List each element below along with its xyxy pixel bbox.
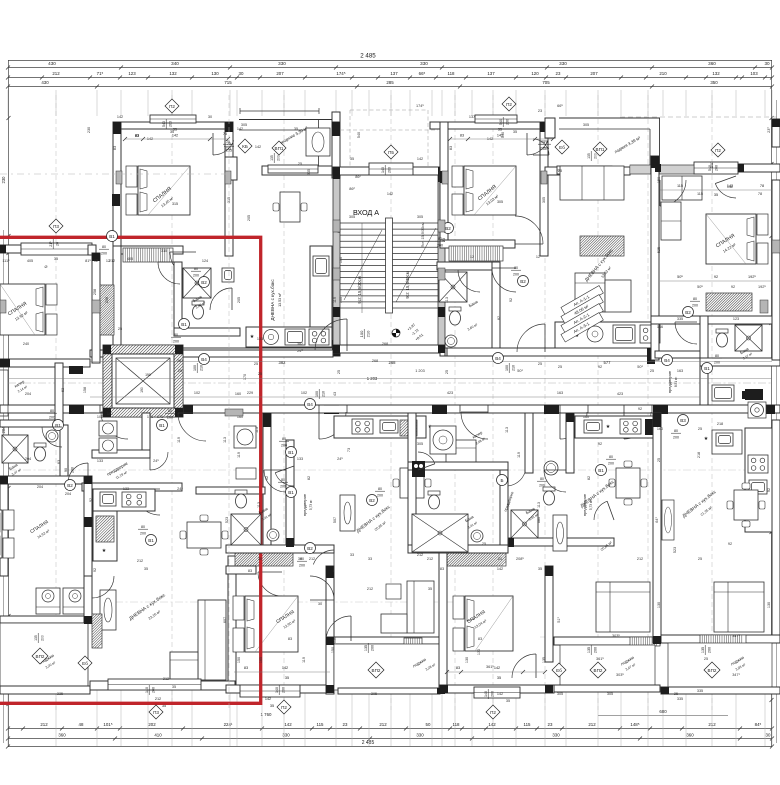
entrance canopy dashed xyxy=(340,110,438,167)
svg-text:82: 82 xyxy=(497,316,501,320)
svg-text:80: 80 xyxy=(540,477,544,481)
svg-text:В1: В1 xyxy=(181,322,187,327)
left edge axis dash xyxy=(0,174,230,206)
A1 right/bottom walls xyxy=(113,122,340,356)
svg-text:В2: В2 xyxy=(520,279,526,284)
svg-text:218: 218 xyxy=(717,422,723,426)
svg-text:Яст. 15,9/30см: Яст. 15,9/30см xyxy=(421,222,425,248)
svg-text:80: 80 xyxy=(168,409,172,413)
svg-text:119: 119 xyxy=(302,657,306,663)
svg-text:200: 200 xyxy=(673,435,679,439)
marker VP2 b393 xyxy=(704,662,720,678)
corridor door openings xyxy=(100,406,652,440)
svg-text:540: 540 xyxy=(162,121,166,127)
svg-text:200: 200 xyxy=(437,243,443,247)
svg-text:В2: В2 xyxy=(369,498,375,503)
svg-text:13.53 м²: 13.53 м² xyxy=(278,292,282,306)
svg-text:83: 83 xyxy=(135,134,139,138)
svg-text:210: 210 xyxy=(511,365,515,371)
svg-text:135: 135 xyxy=(542,657,546,663)
more scattered dims xyxy=(25,104,771,703)
svg-text:25: 25 xyxy=(337,370,341,374)
svg-text:142: 142 xyxy=(284,722,292,727)
bed bedroom12.90 xyxy=(233,596,244,620)
balcony 3.28 xyxy=(326,616,443,694)
svg-text:200: 200 xyxy=(101,251,107,255)
svg-text:335: 335 xyxy=(677,697,683,701)
A2 bottom wall, doors xyxy=(440,268,655,364)
svg-text:200: 200 xyxy=(70,467,74,473)
svg-text:200: 200 xyxy=(593,647,597,653)
svg-text:200: 200 xyxy=(593,153,597,159)
svg-text:73: 73 xyxy=(347,448,351,452)
svg-text:171: 171 xyxy=(147,415,153,419)
left bedroom right wall + wardrobe xyxy=(92,253,114,363)
bath A1 fixtures xyxy=(174,262,240,336)
svg-text:133: 133 xyxy=(123,487,129,491)
loggia A1 rail and inner wall xyxy=(225,108,340,180)
svg-text:200: 200 xyxy=(377,493,383,497)
svg-text:305: 305 xyxy=(417,442,423,446)
svg-text:В1: В1 xyxy=(148,538,154,543)
svg-text:192⁵: 192⁵ xyxy=(748,275,756,279)
svg-text:80: 80 xyxy=(609,455,613,459)
svg-text:305: 305 xyxy=(307,169,311,175)
svg-text:330: 330 xyxy=(278,61,286,66)
svg-text:118: 118 xyxy=(448,71,456,76)
bath door arcs xyxy=(275,466,614,572)
svg-text:Б: Б xyxy=(500,478,503,483)
svg-text:115: 115 xyxy=(677,184,683,188)
svg-text:102: 102 xyxy=(301,391,307,395)
door marker В2 at 523,281 xyxy=(518,276,529,287)
svg-text:130: 130 xyxy=(211,71,219,76)
svg-text:В1: В1 xyxy=(159,423,165,428)
door marker В2 at 688,312 xyxy=(683,307,694,318)
svg-text:165: 165 xyxy=(259,657,263,663)
svg-text:200: 200 xyxy=(513,272,519,276)
svg-text:146: 146 xyxy=(657,325,663,329)
svg-text:258: 258 xyxy=(105,297,109,303)
svg-text:115: 115 xyxy=(697,192,703,196)
svg-text:23: 23 xyxy=(548,722,553,727)
svg-text:200: 200 xyxy=(707,647,711,653)
kitchen red apartment xyxy=(93,489,155,561)
svg-text:240: 240 xyxy=(23,342,29,346)
svg-text:135: 135 xyxy=(364,645,368,651)
marker VP2 b347 xyxy=(590,662,606,678)
svg-text:230: 230 xyxy=(87,127,91,133)
svg-text:92: 92 xyxy=(767,488,771,492)
svg-text:80: 80 xyxy=(281,478,285,482)
svg-text:5,73 м²: 5,73 м² xyxy=(309,500,313,510)
svg-text:212: 212 xyxy=(588,722,596,727)
svg-text:285: 285 xyxy=(386,80,394,85)
svg-text:100: 100 xyxy=(359,330,364,337)
svg-text:80: 80 xyxy=(50,409,54,413)
svg-text:25: 25 xyxy=(650,369,654,373)
svg-text:83: 83 xyxy=(244,666,248,670)
svg-text:В1: В1 xyxy=(598,468,604,473)
svg-text:133: 133 xyxy=(297,457,303,461)
svg-text:ВП2: ВП2 xyxy=(372,668,381,673)
marker VP2 mid xyxy=(368,662,384,678)
svg-text:П2: П2 xyxy=(490,710,496,715)
svg-text:360: 360 xyxy=(58,733,66,738)
svg-text:30: 30 xyxy=(208,115,212,119)
marker P3 text xyxy=(49,239,59,249)
svg-text:25: 25 xyxy=(258,372,262,376)
svg-text:24⁵: 24⁵ xyxy=(177,487,183,491)
svg-text:142: 142 xyxy=(237,127,243,131)
svg-text:50¹: 50¹ xyxy=(517,369,523,373)
svg-text:305: 305 xyxy=(497,200,503,204)
svg-text:50⁵: 50⁵ xyxy=(697,285,703,289)
door marker В2 at 448,228 xyxy=(443,223,454,234)
svg-text:142: 142 xyxy=(282,666,288,670)
corridor lower wall xyxy=(0,366,780,414)
svg-text:140: 140 xyxy=(275,687,279,693)
svg-text:540: 540 xyxy=(357,132,361,138)
svg-text:124: 124 xyxy=(202,259,208,263)
svg-text:90: 90 xyxy=(64,468,68,472)
svg-text:218: 218 xyxy=(697,452,701,458)
svg-text:П2: П2 xyxy=(169,104,175,109)
svg-text:174⁵: 174⁵ xyxy=(416,104,424,108)
svg-text:207: 207 xyxy=(590,71,598,76)
svg-text:В1: В1 xyxy=(109,234,115,239)
living A2 furniture xyxy=(560,166,631,312)
living A1 furniture xyxy=(273,128,330,222)
svg-text:24⁵: 24⁵ xyxy=(153,459,159,463)
svg-text:361⁵: 361⁵ xyxy=(596,657,604,661)
svg-text:212: 212 xyxy=(379,722,387,727)
svg-text:115: 115 xyxy=(317,722,325,727)
svg-text:ВП2: ВП2 xyxy=(36,654,45,659)
svg-text:71⁵: 71⁵ xyxy=(97,71,104,76)
svg-text:25: 25 xyxy=(445,370,449,374)
svg-text:ВП1: ВП1 xyxy=(275,146,284,151)
svg-text:12: 12 xyxy=(106,259,110,263)
svg-text:405: 405 xyxy=(127,257,133,261)
svg-text:100: 100 xyxy=(193,365,197,371)
svg-text:92: 92 xyxy=(509,298,513,302)
apartment A3 top wall xyxy=(620,117,780,360)
svg-text:148⁵: 148⁵ xyxy=(630,722,639,727)
unit B3 kitchen xyxy=(704,428,772,532)
svg-text:35: 35 xyxy=(714,193,718,197)
svg-text:80: 80 xyxy=(141,525,145,529)
svg-text:В4: В4 xyxy=(201,357,207,362)
svg-text:200: 200 xyxy=(539,483,545,487)
svg-text:86²: 86² xyxy=(349,187,355,191)
svg-text:23: 23 xyxy=(343,722,348,727)
loggia A1 markers xyxy=(272,141,286,155)
svg-text:208⁵: 208⁵ xyxy=(516,557,524,561)
bed 13.04 xyxy=(453,596,464,619)
svg-text:23: 23 xyxy=(556,71,561,76)
svg-text:680: 680 xyxy=(537,517,541,523)
bedroom12.90 walls xyxy=(226,566,334,697)
svg-text:137: 137 xyxy=(469,115,475,119)
unit B3 furniture xyxy=(714,483,765,632)
svg-text:212: 212 xyxy=(52,71,60,76)
svg-text:347¹: 347¹ xyxy=(732,673,740,677)
svg-text:92: 92 xyxy=(598,365,602,369)
svg-text:212: 212 xyxy=(137,559,143,563)
svg-text:160: 160 xyxy=(657,427,663,431)
svg-text:163: 163 xyxy=(677,369,683,373)
svg-text:33: 33 xyxy=(442,238,446,242)
marker P2 topright xyxy=(711,143,725,157)
door marker В1 at 151,540 xyxy=(146,535,157,546)
third batch dims xyxy=(45,109,771,696)
svg-text:200: 200 xyxy=(168,121,172,127)
svg-text:80: 80 xyxy=(282,437,286,441)
elevator shaft xyxy=(103,345,183,417)
svg-text:21: 21 xyxy=(498,557,502,561)
svg-text:210: 210 xyxy=(659,71,667,76)
misc door arcs xyxy=(42,180,686,600)
svg-text:92: 92 xyxy=(731,285,735,289)
svg-text:Еб: Еб xyxy=(556,668,562,673)
svg-text:Еб: Еб xyxy=(82,661,88,666)
svg-text:330: 330 xyxy=(552,733,560,738)
svg-text:92: 92 xyxy=(265,476,269,480)
svg-text:150: 150 xyxy=(333,637,337,643)
svg-text:★: ★ xyxy=(250,334,255,340)
svg-text:50¹: 50¹ xyxy=(637,365,643,369)
svg-text:2 485: 2 485 xyxy=(362,740,375,746)
svg-text:305: 305 xyxy=(542,197,546,203)
svg-text:83: 83 xyxy=(478,637,482,641)
svg-text:66⁵: 66⁵ xyxy=(557,104,563,108)
svg-text:212: 212 xyxy=(163,677,169,681)
svg-text:705: 705 xyxy=(542,80,550,85)
svg-text:200: 200 xyxy=(387,167,391,173)
svg-text:200: 200 xyxy=(193,273,199,277)
marker P2 bottom1 xyxy=(277,700,291,714)
unit B2 bath xyxy=(506,413,614,546)
svg-text:235: 235 xyxy=(225,146,231,150)
svg-text:305: 305 xyxy=(557,692,563,696)
svg-text:423: 423 xyxy=(617,392,623,396)
svg-text:92: 92 xyxy=(93,568,97,572)
svg-text:142: 142 xyxy=(255,145,261,149)
svg-text:9ст. 15,9/30см: 9ст. 15,9/30см xyxy=(357,276,362,303)
svg-text:540: 540 xyxy=(499,119,503,125)
marker EB mid xyxy=(552,663,566,677)
svg-text:132: 132 xyxy=(712,71,720,76)
svg-text:523: 523 xyxy=(225,517,229,523)
svg-text:82: 82 xyxy=(307,476,311,480)
svg-text:305: 305 xyxy=(241,123,247,127)
svg-text:150: 150 xyxy=(237,657,241,663)
svg-text:119: 119 xyxy=(333,297,337,303)
svg-text:210: 210 xyxy=(365,330,370,337)
svg-text:200: 200 xyxy=(281,687,285,693)
bedroom12.90 top xyxy=(226,552,293,596)
svg-text:92: 92 xyxy=(89,498,93,502)
svg-text:83: 83 xyxy=(440,567,444,571)
svg-text:101⁵: 101⁵ xyxy=(103,722,112,727)
svg-text:212: 212 xyxy=(708,722,716,727)
svg-text:★: ★ xyxy=(102,548,107,554)
svg-text:83: 83 xyxy=(248,569,252,573)
svg-text:50⁵: 50⁵ xyxy=(677,275,683,279)
svg-text:142: 142 xyxy=(417,157,423,161)
svg-text:200: 200 xyxy=(173,339,179,343)
svg-text:В4: В4 xyxy=(307,402,313,407)
svg-text:92: 92 xyxy=(598,442,602,446)
svg-text:212: 212 xyxy=(155,697,161,701)
svg-text:135: 135 xyxy=(701,647,705,653)
svg-text:132: 132 xyxy=(169,71,177,76)
hall second door marker xyxy=(178,95,297,710)
svg-text:258: 258 xyxy=(93,289,97,295)
svg-text:174⁵: 174⁵ xyxy=(336,71,345,76)
svg-text:212: 212 xyxy=(40,722,48,727)
svg-text:25: 25 xyxy=(298,162,302,166)
svg-text:12: 12 xyxy=(94,259,98,263)
svg-text:113: 113 xyxy=(223,437,227,443)
svg-text:507: 507 xyxy=(333,517,337,523)
svg-text:63: 63 xyxy=(57,460,61,464)
svg-text:303⁵: 303⁵ xyxy=(612,634,620,638)
corridor upper wall xyxy=(0,348,700,367)
top dimension strip xyxy=(6,53,774,89)
svg-text:25: 25 xyxy=(254,362,258,366)
svg-text:200: 200 xyxy=(276,155,280,161)
apartment A1 exterior walls xyxy=(113,115,233,258)
svg-text:135: 135 xyxy=(270,155,274,161)
svg-text:360: 360 xyxy=(708,61,716,66)
svg-text:102: 102 xyxy=(107,412,113,416)
svg-text:540: 540 xyxy=(501,132,505,138)
door marker В1 at 601,470 xyxy=(596,465,607,476)
svg-text:78: 78 xyxy=(760,184,764,188)
svg-text:212: 212 xyxy=(367,587,373,591)
svg-text:102: 102 xyxy=(97,415,103,419)
bedroom dim rows xyxy=(123,128,772,282)
svg-text:130: 130 xyxy=(477,649,481,655)
svg-text:210: 210 xyxy=(199,365,203,371)
svg-text:158: 158 xyxy=(83,387,87,393)
extra black junction chunks xyxy=(0,119,780,694)
svg-text:118: 118 xyxy=(453,722,461,727)
svg-text:В1: В1 xyxy=(288,490,294,495)
svg-text:430: 430 xyxy=(48,61,56,66)
svg-text:330: 330 xyxy=(416,733,424,738)
svg-text:1 203: 1 203 xyxy=(415,369,425,373)
svg-text:103: 103 xyxy=(750,71,758,76)
svg-text:80: 80 xyxy=(715,354,719,358)
svg-text:268: 268 xyxy=(372,359,378,363)
svg-text:115: 115 xyxy=(524,722,532,727)
balcony 3.47 xyxy=(554,637,660,692)
bottom bedroom dim rows xyxy=(234,666,547,680)
svg-text:113: 113 xyxy=(505,427,509,433)
svg-text:212: 212 xyxy=(427,557,433,561)
svg-text:80: 80 xyxy=(378,487,382,491)
svg-text:142: 142 xyxy=(387,192,393,196)
svg-text:142: 142 xyxy=(727,184,733,188)
svg-text:★: ★ xyxy=(704,436,709,442)
svg-text:35: 35 xyxy=(538,567,542,571)
svg-text:83: 83 xyxy=(460,134,464,138)
grey pilaster columns xyxy=(0,171,780,416)
svg-text:137: 137 xyxy=(390,71,398,76)
left bedroom top wall xyxy=(0,243,96,255)
svg-text:В2: В2 xyxy=(307,546,313,551)
svg-text:142: 142 xyxy=(117,115,123,119)
svg-text:35: 35 xyxy=(498,128,502,132)
scattered small dimensions xyxy=(2,130,766,701)
corridor internal dim lines xyxy=(8,353,772,410)
left walls red apt xyxy=(0,476,92,576)
svg-text:200: 200 xyxy=(167,415,173,419)
svg-text:81⁵: 81⁵ xyxy=(85,259,91,263)
svg-text:382: 382 xyxy=(279,360,287,365)
storeroom walls xyxy=(0,363,63,427)
svg-text:КБ: КБ xyxy=(242,144,248,149)
svg-text:12: 12 xyxy=(536,255,540,259)
svg-text:200: 200 xyxy=(151,687,155,693)
svg-text:200: 200 xyxy=(370,645,374,651)
door marker В2 at 372,500 xyxy=(367,495,378,506)
kitchen A1 xyxy=(246,246,332,347)
bedroom 13.04 bottom xyxy=(440,685,554,698)
svg-text:268: 268 xyxy=(382,342,388,346)
loggia A2 xyxy=(545,118,660,175)
svg-text:30: 30 xyxy=(239,71,244,76)
unit B1 kitchen xyxy=(334,416,433,438)
svg-text:540: 540 xyxy=(710,162,714,168)
svg-text:305: 305 xyxy=(607,692,613,696)
svg-text:200: 200 xyxy=(280,484,286,488)
svg-text:410: 410 xyxy=(154,733,162,738)
unit B2 living furniture xyxy=(553,461,650,632)
svg-text:преддверие: преддверие xyxy=(667,370,672,393)
sofa red apt xyxy=(170,600,226,680)
marker P2 topleft xyxy=(165,99,179,113)
svg-text:25: 25 xyxy=(558,169,562,173)
svg-text:35: 35 xyxy=(294,127,298,131)
svg-text:330: 330 xyxy=(559,61,567,66)
svg-text:В1: В1 xyxy=(288,450,294,455)
stairs treads xyxy=(340,218,438,313)
svg-text:130: 130 xyxy=(767,602,771,608)
door marker В2 at 204,282 xyxy=(199,277,210,288)
svg-text:305: 305 xyxy=(583,123,589,127)
svg-text:137: 137 xyxy=(487,71,495,76)
svg-text:142: 142 xyxy=(488,722,496,727)
svg-text:25: 25 xyxy=(704,657,708,661)
marker KB top xyxy=(238,139,252,153)
svg-text:315: 315 xyxy=(172,202,178,206)
stair landing details xyxy=(315,319,424,351)
svg-text:В1: В1 xyxy=(704,366,710,371)
svg-text:20: 20 xyxy=(55,242,59,246)
svg-text:135: 135 xyxy=(587,153,591,159)
svg-text:133: 133 xyxy=(257,337,263,341)
marker EB left xyxy=(78,656,92,670)
svg-text:150: 150 xyxy=(657,177,661,183)
svg-text:142: 142 xyxy=(265,697,271,701)
svg-text:160: 160 xyxy=(583,415,589,419)
svg-text:92: 92 xyxy=(728,542,732,546)
svg-text:78: 78 xyxy=(758,192,762,196)
